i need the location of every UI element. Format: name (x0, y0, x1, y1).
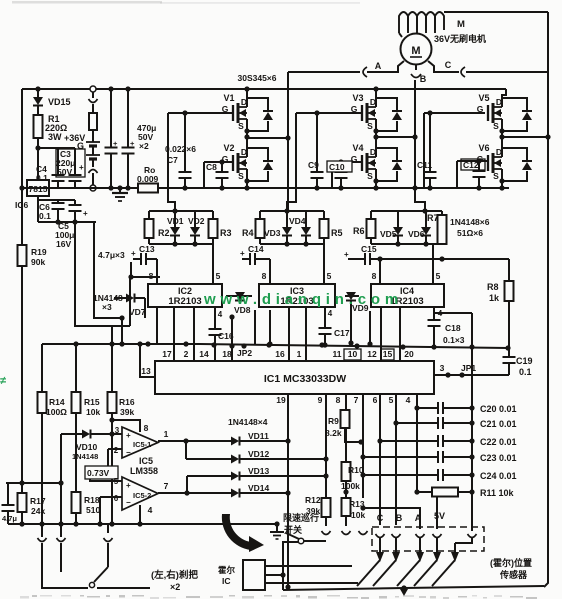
resistor R12 39k (305, 495, 331, 526)
wire pin6 column (377, 394, 382, 525)
svg-text:B: B (396, 513, 403, 523)
svg-text:2: 2 (114, 446, 119, 455)
svg-text:+: + (126, 431, 131, 440)
svg-text:R12: R12 (305, 495, 321, 505)
wire left sense line (6, 482, 61, 484)
capacitor C3 220u 50V (56, 149, 85, 188)
svg-text:C: C (377, 513, 384, 523)
hall sensor arrows (357, 537, 472, 586)
capacitor C8 (206, 159, 229, 190)
wire V4 gate line (332, 162, 362, 188)
svg-text:V1: V1 (223, 93, 234, 103)
diode VD3 (282, 211, 292, 247)
watermark (203, 291, 403, 308)
wire battery G column down (94, 222, 125, 321)
svg-text:D: D (496, 97, 502, 107)
diode VD4 (301, 211, 311, 247)
connector break C (445, 60, 465, 77)
svg-text:C23 0.01: C23 0.01 (480, 453, 517, 463)
svg-text:13: 13 (141, 366, 151, 376)
wire right border vertical (544, 12, 548, 587)
wire IC4 pin5 via R7 (433, 244, 441, 284)
label R6 (353, 226, 365, 236)
svg-text:R16: R16 (119, 397, 135, 407)
wire pin19 column (285, 394, 290, 590)
svg-text:C: C (445, 60, 452, 70)
svg-text:IC5-1: IC5-1 (133, 440, 151, 449)
diode VD13 (231, 466, 326, 481)
svg-text:×2: ×2 (170, 582, 180, 592)
svg-text:18: 18 (222, 349, 232, 359)
wire V2 gate line (204, 162, 233, 188)
svg-text:12: 12 (367, 349, 377, 359)
capacitor 470u 50V #2 (122, 86, 136, 190)
svg-text:S: S (238, 171, 244, 181)
svg-text:C7: C7 (167, 155, 178, 165)
resistor R19 90k (18, 245, 47, 267)
svg-text:7: 7 (354, 395, 359, 405)
svg-text:限速巡行: 限速巡行 (283, 512, 319, 523)
svg-text:IC2: IC2 (178, 286, 192, 296)
svg-text:V3: V3 (352, 93, 363, 103)
wire op-amp2 pin4 ground (137, 505, 152, 527)
wire gate rail bottom (149, 243, 213, 245)
labels C B A 5V (377, 511, 445, 523)
svg-text:14: 14 (199, 349, 209, 359)
svg-text:C21 0.01: C21 0.01 (480, 419, 517, 429)
wire V1 source to V2 drain (244, 119, 249, 150)
svg-text:C10: C10 (329, 162, 345, 172)
svg-text:C22 0.01: C22 0.01 (480, 437, 517, 447)
svg-text:R18: R18 (84, 495, 100, 505)
resistor R7 (438, 211, 447, 244)
diode VD6 (421, 211, 431, 247)
resistor R18 510 (72, 492, 101, 527)
capacitor C17 (319, 307, 350, 348)
svg-text:www.dianqin.com: www.dianqin.com (203, 291, 403, 308)
capacitor C10 (327, 159, 352, 190)
transistor V1 (222, 86, 250, 131)
wire jog from mid rail (415, 188, 425, 211)
wire op-amp1 output (158, 429, 231, 444)
svg-text:50V: 50V (57, 167, 72, 177)
capacitor C23 0.01 (363, 451, 517, 463)
label 30S345x6 (238, 73, 277, 83)
resistor R5 (320, 211, 329, 244)
resistor R13 10k (342, 498, 366, 526)
resistor R9 8.2k (325, 410, 364, 445)
shunt resistor Ro 0.009 (137, 165, 159, 193)
scan noise top edge (12, 1, 360, 4)
svg-text:8: 8 (144, 423, 149, 433)
resistor R2 (145, 211, 154, 244)
label 470u 50V x2 (137, 123, 156, 151)
capacitor C20 0.01 (417, 402, 517, 414)
capacitor C5 100u 16V (55, 205, 88, 249)
svg-text:24k: 24k (31, 506, 45, 516)
wire R14 R15 R16 top rail and vcc rail (42, 318, 508, 350)
svg-text:R14: R14 (49, 397, 65, 407)
svg-text:+: + (113, 139, 118, 148)
svg-text:VD5: VD5 (380, 229, 397, 239)
svg-text:510: 510 (86, 505, 100, 515)
svg-text:≠: ≠ (0, 375, 6, 387)
scan noise bottom edge (20, 595, 537, 599)
svg-text:8: 8 (336, 395, 341, 405)
body diode of V4 (376, 148, 402, 181)
body diode of V5 (502, 98, 532, 131)
wire VD8 column (229, 314, 234, 361)
svg-text:+: + (126, 481, 131, 490)
resistor R10 100k (341, 462, 364, 498)
connector break B (411, 74, 421, 78)
wire left vertical rail (21, 89, 23, 524)
svg-text:19: 19 (276, 395, 286, 405)
svg-text:JP1: JP1 (461, 363, 476, 373)
diode VD1 (170, 211, 180, 247)
wire IC2 pin8 (149, 259, 157, 284)
svg-text:C19: C19 (516, 356, 533, 366)
capacitor 470u 50V #1 (105, 86, 119, 190)
svg-text:1N4148×4: 1N4148×4 (228, 417, 268, 427)
wire pin8 column (345, 394, 347, 462)
wire C13 branch down (128, 262, 160, 280)
motor M 36V brushless (401, 34, 432, 65)
wire pin9 column (323, 394, 328, 498)
svg-text:R9: R9 (328, 416, 339, 426)
svg-text:VD2: VD2 (188, 216, 205, 226)
watermark mark left (0, 375, 6, 387)
svg-text:G: G (77, 141, 84, 151)
capacitor C16 (209, 307, 234, 361)
svg-text:D: D (241, 97, 247, 107)
wire V5 gate line (424, 113, 485, 188)
node A vertical (287, 72, 289, 211)
svg-text:7: 7 (164, 481, 169, 491)
wire gate rail bottom (260, 243, 324, 245)
gate driver IC3 IR2103 (259, 284, 335, 307)
capacitor C22 0.01 (380, 435, 517, 447)
wire R14 column down (41, 413, 43, 537)
svg-text:17: 17 (162, 349, 172, 359)
svg-text:VD1: VD1 (167, 216, 184, 226)
svg-text:3: 3 (440, 363, 445, 373)
svg-text:R6: R6 (353, 226, 365, 236)
svg-text:IC: IC (222, 576, 231, 586)
svg-text:S: S (238, 121, 244, 131)
svg-text:10: 10 (348, 349, 358, 359)
svg-text:6: 6 (373, 395, 378, 405)
capacitor C21 0.01 (396, 417, 517, 429)
wire pin13 into IC1 (140, 344, 155, 377)
label VD6 (408, 229, 425, 239)
svg-text:0.1: 0.1 (519, 367, 532, 377)
svg-text:×3: ×3 (102, 302, 112, 312)
wire op-amp V+ pin8 (109, 417, 148, 433)
svg-text:VD6: VD6 (408, 229, 425, 239)
svg-text:30S345×6: 30S345×6 (238, 73, 277, 83)
svg-text:+: + (131, 249, 136, 258)
capacitor C4 0.1 (36, 164, 65, 188)
capacitor C14 (240, 244, 270, 265)
wire V3 gate line (296, 113, 362, 188)
label 1N4148x4 (228, 417, 268, 427)
wire JP1 pin3 (434, 363, 476, 378)
wire V6 gate line (457, 161, 487, 188)
wires hall IC outputs (265, 566, 358, 583)
node B vertical (412, 80, 417, 191)
svg-text:1k: 1k (489, 293, 500, 303)
svg-text:R5: R5 (331, 228, 343, 238)
svg-text:S: S (367, 121, 373, 131)
svg-text:1: 1 (297, 349, 302, 359)
svg-text:R15: R15 (84, 397, 100, 407)
body diode of V2 (247, 148, 273, 181)
svg-text:5: 5 (114, 477, 119, 486)
resistor R4 (256, 211, 265, 244)
transistor V3 (351, 86, 379, 131)
diode VD10 1N4148 (61, 430, 122, 462)
wire to VD12 (186, 441, 231, 459)
wire V6 source to mid rail (499, 169, 504, 191)
svg-text:8: 8 (372, 271, 377, 281)
svg-text:R11 10k: R11 10k (480, 488, 515, 498)
svg-text:1: 1 (164, 429, 169, 439)
svg-text:5: 5 (389, 395, 394, 405)
svg-text:IC5-2: IC5-2 (133, 491, 151, 500)
svg-text:(左,右)刹把: (左,右)刹把 (151, 569, 198, 581)
svg-text:V2: V2 (223, 143, 234, 153)
svg-text:16: 16 (275, 349, 285, 359)
svg-text:VD15: VD15 (48, 97, 71, 107)
svg-text:100Ω: 100Ω (46, 407, 67, 417)
svg-text:VD10: VD10 (76, 442, 98, 452)
speed-limit curved arrow (222, 514, 264, 552)
label 1N4148x6 51ohm x6 (450, 217, 490, 238)
svg-text:R13: R13 (349, 499, 365, 509)
svg-text:R19: R19 (31, 247, 47, 257)
resistor R16 39k (108, 344, 135, 417)
svg-text:5: 5 (216, 271, 221, 281)
svg-text:+: + (240, 249, 245, 258)
op-amp IC5-2 (114, 477, 158, 510)
svg-text:+: + (344, 250, 349, 259)
wire mid power rail (19, 185, 509, 190)
label R3 (220, 228, 232, 238)
label R7 (427, 213, 439, 223)
diode VD8 (226, 292, 252, 315)
wire gate rail top (149, 208, 213, 213)
diode VD9 (345, 292, 369, 346)
svg-text:4: 4 (328, 309, 333, 318)
phase B wire (416, 65, 427, 85)
svg-text:1N4148: 1N4148 (72, 452, 98, 461)
wire V3 source to V4 drain (373, 119, 378, 150)
capacitor C13 4.7u (98, 244, 157, 265)
svg-text:−: − (126, 448, 131, 457)
diode VD12 (231, 449, 326, 464)
capacitor C12 (461, 158, 486, 190)
svg-text:VD12: VD12 (248, 449, 270, 459)
body diode of V6 (502, 148, 532, 181)
svg-text:9: 9 (318, 395, 323, 405)
diode VD7 (114, 294, 146, 319)
svg-text:+: + (79, 163, 84, 172)
svg-text:39k: 39k (120, 407, 134, 417)
wire 7815 down (37, 196, 39, 222)
wire brake lever switch (42, 543, 150, 588)
svg-text:C15: C15 (361, 244, 377, 254)
pin numbers IC1 top (162, 349, 414, 360)
svg-text:V4: V4 (352, 143, 363, 153)
capacitor C6 0.1 (39, 202, 65, 222)
wire jog from mid rail (287, 188, 296, 211)
svg-text:100k: 100k (341, 481, 360, 491)
label VD5 (380, 229, 397, 239)
capacitor C7 0.022 (165, 110, 196, 190)
wire C5 C6 rails (38, 200, 96, 225)
svg-text:3: 3 (115, 426, 120, 435)
svg-text:15: 15 (383, 349, 393, 359)
svg-text:+: + (83, 209, 88, 218)
svg-text:90k: 90k (31, 257, 45, 267)
resistor R8 1k (487, 259, 514, 348)
svg-text:3W: 3W (48, 132, 62, 142)
wire VD10 input column (58, 434, 63, 537)
svg-text:8: 8 (262, 271, 267, 281)
jumper JP2 (237, 343, 252, 358)
svg-text:C11: C11 (417, 160, 432, 170)
label R2 (158, 228, 170, 238)
brake switch (89, 567, 108, 588)
wire pin7 column (360, 394, 365, 511)
wire IC3 pin8 (262, 259, 270, 284)
svg-text:11: 11 (333, 349, 342, 359)
svg-text:1N4148×6: 1N4148×6 (450, 217, 490, 227)
wire phase B to bridge2 (376, 134, 418, 139)
capacitor C24 0.01 (363, 469, 517, 481)
wire bottom bus (283, 585, 544, 596)
label VD2 (188, 216, 205, 226)
svg-text:S: S (367, 171, 373, 181)
motor winding loops (399, 12, 444, 37)
wire R15 column to R18 (75, 413, 77, 492)
capacitor C9 (308, 110, 324, 190)
regulator IC6 7815 (15, 180, 49, 210)
svg-text:R7: R7 (427, 213, 439, 223)
wire IC3 pin5 (324, 244, 332, 284)
capacitor C18 (428, 307, 511, 351)
svg-text:0.1: 0.1 (39, 211, 51, 221)
svg-text:5V: 5V (434, 511, 445, 521)
wire JP1 column (471, 313, 473, 531)
svg-text:5: 5 (436, 271, 441, 281)
label VD1 (167, 216, 184, 226)
resistor R15 10k (72, 344, 101, 417)
connector break A (363, 61, 382, 77)
transistor V6 (477, 143, 502, 181)
resistor R1 220ohm 3W (34, 114, 68, 142)
svg-text:C17: C17 (334, 328, 350, 338)
svg-text:0.009: 0.009 (137, 174, 159, 184)
body diode of V1 (247, 98, 273, 131)
svg-text:R8: R8 (487, 282, 499, 292)
wire V5 source to V6 drain (499, 119, 504, 150)
wire to VD13 (184, 476, 231, 496)
connector hooks hall lines (322, 531, 477, 538)
diode VD15 (33, 86, 71, 115)
svg-text:4.7μ×3: 4.7μ×3 (98, 250, 125, 260)
svg-text:JP2: JP2 (237, 348, 252, 358)
svg-text:0.022×6: 0.022×6 (165, 144, 196, 154)
svg-text:×2: ×2 (139, 141, 149, 151)
svg-text:(霍尔)位置: (霍尔)位置 (490, 557, 532, 568)
wire A jog (363, 508, 420, 529)
capacitor C15 (344, 244, 509, 265)
capacitor C11 (417, 110, 437, 190)
svg-text:4: 4 (218, 310, 223, 319)
phase A wire (288, 61, 404, 72)
svg-text:C18: C18 (445, 323, 461, 333)
phase C wire (428, 61, 548, 72)
wire IC2 pin5 (213, 244, 221, 284)
svg-text:LM358: LM358 (130, 466, 158, 476)
diode VD11 (231, 431, 288, 446)
wire 0.73V to pin5 (90, 479, 122, 481)
label IC5 LM358 (130, 456, 158, 476)
svg-text:C13: C13 (139, 244, 155, 254)
svg-text:VD11: VD11 (248, 431, 269, 441)
resistor R6 (367, 211, 376, 244)
svg-text:R2: R2 (158, 228, 170, 238)
wire V4 source to mid rail (373, 169, 378, 191)
capacitor C19 0.1 (472, 348, 533, 377)
wire analog ground rail (8, 521, 277, 526)
op-amp IC5-1 (114, 426, 158, 458)
label R5 (331, 228, 343, 238)
wire IC3 to IC1 pins (255, 307, 306, 361)
svg-text:16V: 16V (56, 239, 71, 249)
wire C5 column down to rail (75, 222, 130, 344)
wire pin4 column (414, 394, 419, 495)
battery +36V G (64, 86, 100, 191)
transistor V2 (222, 143, 247, 181)
svg-text:8.2k: 8.2k (325, 428, 342, 438)
svg-text:VD3: VD3 (264, 228, 281, 238)
label VD4 (289, 216, 306, 226)
wire V2 source to mid rail (244, 169, 249, 191)
label speed cruise switch (283, 512, 319, 535)
ground under IC5 (270, 521, 284, 539)
label 1N4148 x3 (93, 293, 123, 312)
svg-text:4: 4 (148, 505, 153, 515)
svg-text:20: 20 (404, 349, 414, 359)
hall connector dashed box (372, 527, 484, 551)
svg-text:VD14: VD14 (248, 483, 270, 493)
svg-text:R10: R10 (348, 465, 364, 475)
capacitor 4.7u left edge (2, 483, 18, 524)
gate driver IC2 IR2103 (148, 284, 222, 307)
wire 5V tap (436, 496, 438, 529)
svg-text:10k: 10k (86, 407, 100, 417)
svg-text:S: S (493, 171, 499, 181)
wire jog from mid rail (168, 188, 175, 211)
transistor V5 (477, 89, 506, 131)
svg-text:C12: C12 (463, 160, 479, 170)
wire gate rail top (260, 208, 324, 213)
svg-text:S: S (493, 121, 499, 131)
resistor R17 24k (18, 480, 46, 526)
